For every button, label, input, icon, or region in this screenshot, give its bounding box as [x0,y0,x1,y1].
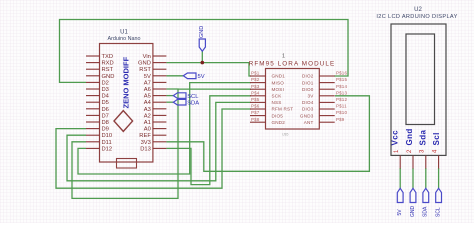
wire U2 pin4 to SCL flag [438,168,440,188]
flag SDA bottom u2 [423,188,429,202]
svg-text:U2: U2 [414,7,422,13]
svg-text:A5: A5 [144,94,151,100]
svg-text:ANT: ANT [304,120,314,125]
svg-text:D3: D3 [102,87,109,93]
svg-text:I2C LCD ARDUINO DISPLAY: I2C LCD ARDUINO DISPLAY [376,14,457,20]
svg-text:DIO5: DIO5 [272,113,284,118]
svg-text:D6: D6 [102,107,109,113]
svg-text:D9: D9 [102,127,109,133]
svg-text:D11: D11 [102,140,112,146]
svg-text:A4: A4 [144,100,152,106]
svg-text:GND: GND [138,61,151,67]
wire D13 to P$4 [166,96,251,185]
svg-text:Vin: Vin [143,54,151,60]
U1 body [100,44,153,163]
svg-text:3V: 3V [307,94,314,99]
svg-text:P$7: P$7 [251,110,260,115]
svg-text:A7: A7 [144,80,151,86]
wire 5V pin to 5V flag [166,75,183,77]
svg-text:P$11: P$11 [336,104,347,109]
svg-text:Vcc: Vcc [391,130,400,146]
svg-text:1: 1 [282,54,285,60]
svg-text:GND1: GND1 [272,74,286,79]
svg-text:D8: D8 [102,120,109,126]
flag GND top [199,39,205,51]
svg-text:3V3: 3V3 [141,140,151,146]
svg-text:DIO4: DIO4 [302,100,314,105]
RFM95 left pin labels [272,74,294,125]
svg-text:SDA: SDA [187,100,199,106]
svg-text:D4: D4 [102,94,110,100]
svg-text:P$13: P$13 [336,90,347,95]
svg-text:D12: D12 [102,146,113,152]
wire U2 pin3 to SDA flag [425,168,427,188]
flag SCL bottom u2 [436,188,442,202]
svg-text:MISO: MISO [272,80,285,85]
RFM95 right stubs [319,76,334,122]
RFM95 left stubs [250,76,266,122]
svg-text:DIO0: DIO0 [302,87,314,92]
svg-text:D7: D7 [102,113,109,119]
svg-text:Scl: Scl [432,132,441,145]
svg-text:A3: A3 [144,107,151,113]
svg-text:P$4: P$4 [251,90,260,95]
RFM95 left pad names P$1-P$8 [251,71,260,122]
svg-text:P$12: P$12 [336,97,347,102]
svg-text:P$15: P$15 [336,77,347,82]
svg-text:Arduino Nano: Arduino Nano [108,36,141,42]
flag 5V [183,73,196,79]
wire GND net: Arduino GND to RFM95 P$1 [166,63,251,76]
wire D12 to P$2 [78,83,251,174]
svg-text:REF: REF [139,133,151,139]
svg-text:D5: D5 [102,100,109,106]
svg-text:Sda: Sda [419,129,428,145]
svg-text:5V: 5V [198,74,205,80]
U1 right pin stubs [153,56,167,148]
svg-text:5V: 5V [144,74,151,80]
U1 usb connector rect [117,159,137,169]
svg-text:U$5: U$5 [282,133,288,137]
svg-text:P$6: P$6 [251,104,260,109]
svg-text:RXD: RXD [102,61,114,67]
svg-text:SDA: SDA [423,206,429,217]
flag SCL [173,93,186,99]
flag 5V bottom u2 [397,188,403,202]
svg-text:P$9: P$9 [336,117,345,122]
RFM95 right pad names P$16-P$9 [336,71,347,122]
U2 pin labels rotated [391,128,442,145]
svg-text:SCL: SCL [187,94,199,100]
wire U2 pin2 to GND flag [412,168,414,188]
U2 outer body [391,24,446,155]
svg-text:GND: GND [102,74,115,80]
svg-text:TXD: TXD [102,54,114,60]
svg-text:DIO2: DIO2 [302,74,314,79]
wire D9 to P$6 [56,109,251,188]
svg-text:P$8: P$8 [251,117,260,122]
junction GND net [201,61,205,65]
U1 mcu diamond [114,111,133,132]
svg-text:DIO3: DIO3 [302,107,314,112]
svg-text:P$3: P$3 [251,84,260,89]
svg-text:P$1: P$1 [251,71,260,76]
svg-text:D2: D2 [102,80,109,86]
U1 left pin names [102,54,115,152]
wire A4 to SDA flag [166,101,173,103]
svg-text:DIO1: DIO1 [302,80,314,85]
wire GND flag drop [201,51,203,63]
U2 pin numbers [394,149,438,153]
svg-text:5V: 5V [397,209,403,216]
svg-text:GND: GND [199,26,205,38]
RFM95 body [266,69,320,130]
RFM95 right pin labels [300,74,314,125]
U1 left pin stubs [86,56,100,148]
flag GND bottom u2 [410,188,416,202]
svg-text:P$16: P$16 [336,71,347,76]
svg-text:A6: A6 [144,87,151,93]
svg-text:GND: GND [410,206,416,218]
svg-text:GND2: GND2 [272,120,286,125]
svg-text:A1: A1 [144,120,151,126]
wire 3V3 to P$13 big loop [166,96,369,172]
svg-text:P$10: P$10 [336,110,347,115]
svg-text:Gnd: Gnd [405,128,414,145]
svg-text:A0: A0 [144,127,151,133]
svg-text:GND3: GND3 [300,113,314,118]
svg-text:D10: D10 [102,133,113,139]
wire U2 pin1 to 5V flag [399,168,401,188]
U2 inner screen rect [406,34,435,125]
svg-text:P$5: P$5 [251,97,260,102]
U2 pin stubs [400,155,438,168]
svg-text:RST: RST [139,67,151,73]
svg-text:U1: U1 [120,30,128,36]
svg-text:RST: RST [102,67,114,73]
svg-text:SCL: SCL [435,207,441,217]
svg-text:D13: D13 [140,146,151,152]
svg-text:RFM RST: RFM RST [272,107,294,112]
svg-text:P$14: P$14 [336,84,347,89]
svg-text:P$2: P$2 [251,77,260,82]
svg-text:NSS: NSS [272,100,282,105]
wire D2 to P$16 top loop [60,20,349,83]
svg-text:A2: A2 [144,113,151,119]
wire D10 to P$5 [67,102,251,180]
wire A6 / D11 / RFM95 P$3 net [72,89,251,198]
U1 right pin names [138,54,152,152]
svg-text:ZENO MODIFF: ZENO MODIFF [122,56,131,108]
flag SDA [173,99,186,105]
svg-text:SCK: SCK [272,94,283,99]
svg-text:RFM95 LORA MODULE: RFM95 LORA MODULE [249,61,336,68]
svg-text:MOSI: MOSI [272,87,285,92]
wire A5 to SCL flag [166,95,173,97]
